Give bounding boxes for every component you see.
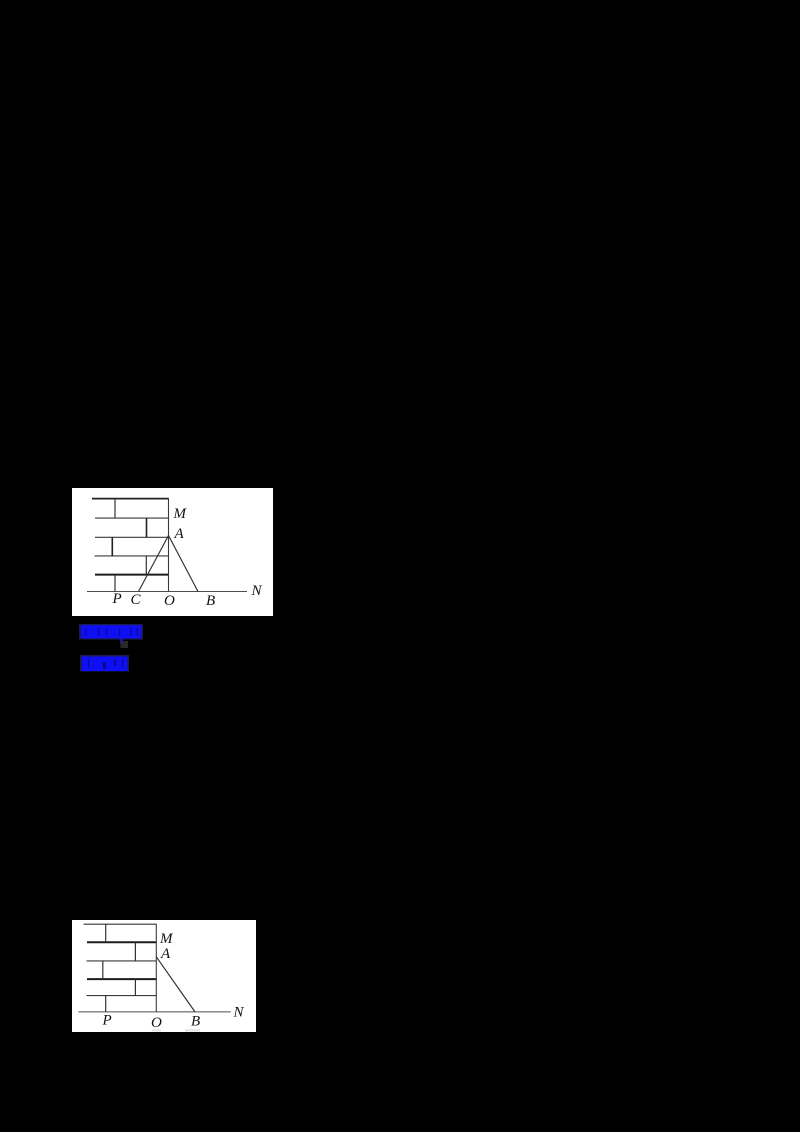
svg-text:P: P — [112, 591, 122, 607]
brick joint row2 — [134, 942, 136, 961]
ladder A C — [139, 536, 169, 592]
brick joint row4 — [145, 556, 147, 575]
svg-text:N: N — [251, 583, 263, 599]
figure panel 1 (brick wall with ladder triangle ACB) — [72, 488, 273, 616]
ladder A B — [156, 957, 195, 1012]
brick joint row2 — [146, 518, 148, 537]
svg-text:P: P — [102, 1013, 112, 1029]
ground line P N — [87, 591, 247, 593]
blue heading line 1 — [79, 624, 144, 649]
brick course line 3 — [87, 960, 157, 962]
svg-text:B: B — [191, 1014, 200, 1030]
figure panel 2 (brick wall with single ladder AB) — [72, 920, 256, 1032]
brick joint row5 — [105, 996, 107, 1012]
svg-text:B: B — [206, 593, 215, 609]
brick joint row5 — [114, 575, 116, 592]
svg-text:O: O — [151, 1015, 162, 1031]
svg-text:M: M — [173, 506, 188, 522]
brick course line 4 (thick) — [87, 978, 157, 980]
svg-text:A: A — [160, 946, 171, 962]
svg-text:C: C — [131, 592, 142, 608]
brick course line 4 — [95, 555, 169, 557]
wall top line — [92, 498, 169, 500]
brick joint row1 — [114, 499, 116, 518]
brick joint row1 — [105, 924, 107, 942]
brick course line 3 — [95, 536, 169, 538]
svg-text:O: O — [164, 593, 175, 609]
ladder A B — [169, 536, 199, 592]
svg-text:A: A — [174, 526, 185, 542]
brick course line 2 (thick) — [87, 941, 157, 943]
wall top line — [84, 923, 157, 925]
brick course line 5 (thick) — [95, 574, 169, 576]
faint smudge under O — [152, 1029, 161, 1031]
svg-text:M: M — [159, 931, 174, 947]
wall edge M O — [168, 499, 170, 592]
faint smudge under B — [185, 1029, 200, 1031]
svg-text:N: N — [233, 1005, 245, 1021]
brick course line 5 — [87, 995, 157, 997]
brick course line 2 — [95, 517, 169, 519]
ground line P N — [78, 1011, 230, 1013]
brick joint row4 — [134, 979, 136, 996]
brick joint row3 — [111, 537, 113, 556]
blue heading line 2 — [80, 655, 130, 673]
brick joint row3 — [102, 961, 104, 979]
wall edge M O — [155, 924, 157, 1012]
